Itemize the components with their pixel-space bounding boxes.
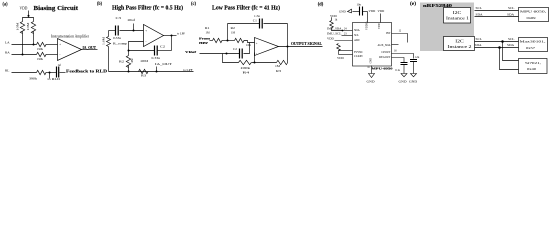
panel label (b) (97, 2, 102, 7)
svg-text:C2: C2 (233, 47, 238, 51)
svg-text:C3: C3 (116, 16, 122, 20)
svg-text:RL: RL (5, 69, 9, 73)
svg-text:Instrumentation Amplifier: Instrumentation Amplifier (51, 33, 90, 38)
svg-text:(c): (c) (191, 2, 196, 7)
ground GND arrow top (339, 9, 352, 13)
wire VRef to gain rail (223, 54, 239, 63)
svg-text:1M: 1M (231, 31, 235, 35)
resistor 190k (RA) (37, 52, 58, 61)
svg-text:12: 12 (399, 30, 402, 33)
svg-text:Instance 2: Instance 2 (448, 45, 472, 49)
panel label (e) (410, 2, 416, 7)
block nRF52840 (420, 3, 474, 52)
svg-text:to LPF: to LPF (183, 68, 193, 72)
svg-text:(b): (b) (97, 2, 102, 7)
svg-text:CLKIN: CLKIN (354, 55, 363, 58)
svg-text:High Pass Filter (fc = 0.5 Hz): High Pass Filter (fc = 0.5 Hz) (112, 4, 183, 11)
block I2C Instance 1 (444, 8, 471, 24)
svg-text:390k: 390k (29, 76, 38, 80)
wire SCL branch to Si7021 (503, 42, 519, 61)
node IA_OUT stub (b) (155, 62, 172, 73)
label MPU-6050 (367, 66, 393, 70)
svg-text:+: + (59, 42, 61, 46)
svg-text:190k: 190k (37, 47, 44, 51)
resistor 390k (29, 70, 57, 80)
svg-text:190k: 190k (37, 57, 44, 61)
svg-text:(a): (a) (3, 2, 8, 7)
svg-text:C2: C2 (160, 44, 166, 48)
svg-text:+: + (256, 42, 258, 46)
svg-text:AUX_SDA: AUX_SDA (377, 44, 390, 47)
node inverting junction (254, 53, 256, 64)
node X junction (227, 24, 229, 42)
capacitor C2 10n (c) (233, 43, 252, 59)
wire right branch to LA (33, 32, 35, 45)
node Feedback to RLD (66, 69, 107, 73)
resistor 10M left (16, 22, 25, 34)
svg-text:SDA: SDA (354, 29, 360, 32)
node VRef (185, 50, 240, 55)
wire AUX_SDA pin (392, 44, 399, 46)
svg-text:AD0: AD0 (354, 39, 360, 42)
svg-text:VDD: VDD (378, 23, 381, 29)
IC U4 MPU-6050 box (353, 22, 392, 66)
svg-text:1.6M: 1.6M (102, 36, 105, 45)
wire SCL bus 2 (475, 37, 519, 43)
svg-text:1.5n: 1.5n (254, 14, 261, 18)
svg-text:CPOUT: CPOUT (381, 51, 390, 54)
svg-text:GND: GND (409, 79, 417, 83)
panel label (c) (191, 2, 196, 7)
svg-text:INT: INT (386, 32, 391, 35)
wire feedback vertical (158, 36, 172, 51)
svg-text:10uf: 10uf (127, 18, 135, 22)
svg-text:1M: 1M (275, 64, 280, 68)
svg-text:R1: R1 (205, 26, 210, 30)
svg-text:R3: R3 (141, 73, 147, 77)
svg-text:SDA: SDA (507, 13, 514, 17)
svg-text:SCL: SCL (508, 6, 514, 10)
block Si7021 (519, 59, 548, 74)
node to LPF (rail) (183, 68, 193, 72)
svg-text:1M: 1M (206, 31, 210, 35)
resistor R3 (b) (139, 69, 149, 77)
wire inverting input feedback (128, 42, 144, 52)
svg-text:1k: 1k (335, 18, 338, 21)
capacitor 1.2u (410, 56, 420, 74)
wire VDD splitter bar (23, 18, 34, 22)
op-amp U1 instrumentation amplifier (51, 33, 90, 60)
svg-text:SCL: SCL (476, 6, 482, 10)
svg-text:10M: 10M (131, 58, 134, 64)
panel label (d) (318, 2, 324, 7)
power VDD (20, 6, 30, 17)
svg-text:0x57: 0x57 (526, 46, 535, 50)
svg-text:SDA: SDA (475, 43, 482, 47)
svg-text:24: 24 (344, 27, 347, 30)
wire INT pin (392, 30, 408, 43)
node From HPF (199, 36, 213, 45)
resistor 190k (LA) (37, 42, 58, 51)
svg-text:Biasing Circuit: Biasing Circuit (34, 5, 79, 12)
svg-text:-: - (256, 51, 257, 55)
node VDD pin left (327, 37, 353, 41)
capacitor C2 (b) (129, 44, 166, 60)
node HPF input junction (133, 24, 135, 32)
svg-text:MPU-6050: MPU-6050 (372, 66, 393, 70)
wire SDA bus 1 (475, 13, 519, 17)
svg-text:VDD: VDD (330, 14, 337, 18)
svg-text:1.2u: 1.2u (415, 56, 420, 59)
capacitor C1 1.5n feedback (228, 14, 288, 63)
svg-text:Low Pass Filter (fc = 41 Hz): Low Pass Filter (fc = 41 Hz) (212, 4, 280, 11)
svg-text:FSYNC: FSYNC (354, 51, 363, 54)
op-amp U3 LPF (255, 38, 279, 56)
capacitor 0.1u (395, 63, 407, 74)
svg-text:10M: 10M (140, 59, 148, 63)
svg-text:+: + (145, 29, 147, 33)
svg-text:GND: GND (367, 79, 375, 83)
svg-text:Instance 1: Instance 1 (446, 16, 469, 20)
svg-text:GND: GND (370, 58, 373, 64)
svg-text:IMU_SDA: IMU_SDA (327, 27, 342, 31)
svg-text:VDD: VDD (327, 37, 334, 41)
block I2C Instance 2 (444, 37, 475, 51)
wire CPOUT to cap (392, 50, 414, 59)
svg-text:GND: GND (399, 79, 407, 83)
svg-text:10M: 10M (16, 22, 20, 30)
power VDD pins top (368, 9, 385, 22)
node RL (5, 69, 37, 73)
svg-text:IA_OUT: IA_OUT (155, 62, 172, 66)
node HPF output (164, 32, 186, 37)
svg-text:VDD: VDD (378, 9, 385, 13)
svg-text:SDA: SDA (507, 43, 514, 47)
resistor R1 1M (c) (205, 26, 235, 43)
wire REGOUT to cap (392, 58, 405, 63)
resistor R2 10M (b) (119, 51, 148, 72)
resistor R_comp 1.6M (102, 31, 127, 72)
svg-text:0.1u: 0.1u (395, 69, 400, 72)
svg-text:GND: GND (339, 10, 346, 14)
svg-text:R_comp: R_comp (113, 42, 128, 46)
node LA (5, 41, 37, 46)
svg-text:I2C: I2C (453, 11, 462, 15)
svg-text:SCL: SCL (354, 34, 359, 37)
title High Pass Filter (112, 4, 183, 11)
resistor R3 1M (c) (275, 60, 288, 73)
svg-text:16: 16 (394, 50, 397, 53)
block Max30101 (519, 38, 548, 52)
svg-text:IMU_SCL: IMU_SCL (327, 32, 342, 36)
svg-text:R4: R4 (243, 70, 250, 74)
svg-text:Feedback to RLD: Feedback to RLD (66, 69, 107, 73)
svg-text:C1: C1 (253, 19, 258, 23)
wire stub to RLD (48, 73, 62, 82)
node IMU_SDA (327, 27, 353, 31)
node IMU_SCL (327, 32, 353, 36)
node RA (5, 51, 37, 56)
svg-text:R2: R2 (231, 26, 236, 30)
ground cap1 (399, 74, 408, 84)
svg-text:100k: 100k (240, 66, 251, 70)
resistor FSYNC pull (337, 44, 353, 61)
resistor 10M right (26, 22, 36, 34)
node IA_OUT (82, 46, 98, 50)
wire left branch to RA (22, 32, 24, 55)
svg-text:I2C: I2C (455, 40, 464, 44)
title Low Pass Filter (212, 4, 280, 11)
ground cap2 (409, 74, 417, 84)
svg-text:to LPF: to LPF (177, 32, 185, 36)
block MPU 6050 (519, 8, 549, 22)
svg-text:SDA: SDA (476, 13, 483, 17)
svg-text:SCL: SCL (476, 37, 482, 41)
svg-text:20: 20 (367, 66, 370, 69)
svg-text:VDD: VDD (20, 6, 28, 10)
node OUTPUT SIGNAL (279, 42, 323, 48)
svg-text:IA_OUT: IA_OUT (83, 46, 97, 50)
wire SCL bus 1 (475, 6, 519, 11)
wire SDA branch to Si7021 (500, 48, 519, 70)
svg-text:LA: LA (5, 41, 10, 45)
wire SDA bus 2 (475, 43, 519, 49)
svg-text:(e): (e) (410, 2, 416, 7)
svg-text:10n: 10n (357, 3, 362, 7)
capacitor C3 (109, 16, 144, 36)
resistor 1k pull-up (330, 14, 344, 31)
svg-text:0x69: 0x69 (527, 16, 536, 20)
panel label (a) (3, 2, 8, 7)
svg-text:RA: RA (5, 51, 10, 55)
svg-text:SCL: SCL (508, 37, 514, 41)
svg-text:R3: R3 (276, 69, 282, 73)
svg-text:0.33u: 0.33u (152, 56, 161, 60)
svg-text:0x40: 0x40 (527, 67, 536, 71)
svg-text:-: - (59, 53, 60, 57)
svg-text:From: From (199, 36, 210, 40)
svg-text:0.33u: 0.33u (113, 36, 122, 40)
resistor R2 1M (c) (231, 26, 255, 43)
ground MPU stub (367, 66, 375, 84)
svg-text:VDD: VDD (337, 56, 344, 60)
wire bottom rail (b) (109, 71, 194, 73)
capacitor 10n decoupling (353, 3, 368, 16)
svg-text:OUTPUT SIGNAL: OUTPUT SIGNAL (291, 42, 322, 46)
svg-text:to RLD: to RLD (48, 77, 62, 81)
svg-text:(d): (d) (318, 2, 324, 7)
title Biasing Circuit (34, 5, 79, 12)
resistor R4 100k (239, 60, 277, 74)
svg-text:VRef: VRef (185, 50, 197, 54)
svg-text:VDDIO: VDDIO (366, 22, 369, 30)
svg-text:VDD: VDD (369, 9, 376, 13)
svg-text:-: - (145, 40, 146, 44)
svg-text:10n: 10n (246, 43, 252, 47)
svg-text:23: 23 (344, 32, 347, 35)
svg-text:R2: R2 (119, 59, 125, 63)
op-amp U2 HPF (144, 25, 164, 47)
svg-text:10M: 10M (26, 22, 30, 30)
svg-text:REGOUT: REGOUT (379, 56, 391, 59)
capacitor feedback (a) (57, 64, 66, 78)
svg-text:HPF: HPF (199, 41, 208, 45)
